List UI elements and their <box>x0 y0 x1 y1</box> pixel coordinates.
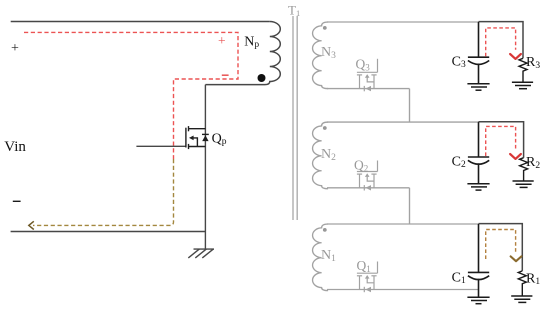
wire: N1 top rail (black to R1) <box>479 224 523 271</box>
wire: N2 output current loop dashed red <box>486 126 516 156</box>
svg-text:C3: C3 <box>452 55 466 71</box>
wire: interconnect N3 to N2 <box>409 89 411 123</box>
wire: N2 top rail (gray) <box>327 121 479 123</box>
wire: N3 loop arrowhead <box>510 54 521 59</box>
ground (R2) <box>513 181 534 187</box>
transformer secondary winding N1 <box>313 224 329 291</box>
wire: interconnect N2 to N1 <box>409 188 411 224</box>
transformer secondary winding N2 <box>313 122 329 189</box>
svg-text:Q2: Q2 <box>354 158 368 174</box>
node: red minus annotation <box>222 74 229 76</box>
resistor R1 <box>518 271 526 296</box>
wire: N1 output current loop dashed brown <box>486 230 516 260</box>
transformer T1 primary winding Np <box>205 22 280 85</box>
capacitor C2 <box>468 122 489 184</box>
svg-text:C2: C2 <box>452 155 466 171</box>
svg-text:+: + <box>11 41 19 56</box>
wire: N1 bottom rail <box>327 289 479 291</box>
ground (R3) <box>512 82 533 88</box>
transformer T1 core <box>293 16 297 220</box>
wire: primary bottom rail <box>11 231 206 233</box>
svg-text:R1: R1 <box>526 271 540 287</box>
svg-text:N3: N3 <box>321 45 336 61</box>
node: primary polarity dot <box>258 74 266 82</box>
wire: drain vertical from Np to ground <box>204 85 206 250</box>
wire: N3 bottom rail <box>327 88 410 90</box>
wire: N3 output current loop dashed red <box>486 28 516 56</box>
wire: N1 top rail (gray) <box>327 223 479 225</box>
svg-text:N2: N2 <box>321 147 336 163</box>
svg-text:Np: Np <box>244 34 259 50</box>
capacitor C1 <box>468 224 489 297</box>
node: N3 polarity dot <box>323 26 327 30</box>
transistor Q2 <box>357 161 378 191</box>
resistor R2 <box>520 158 528 181</box>
transformer secondary winding N3 <box>313 22 329 89</box>
wire: N3 top rail (gray) <box>327 21 479 23</box>
wire: loop arrow (left chevron) <box>29 221 34 229</box>
svg-text:T1: T1 <box>288 3 300 19</box>
ground (R1) <box>511 296 532 302</box>
svg-text:C1: C1 <box>452 271 466 287</box>
wire: N1 loop arrowhead brown <box>511 256 522 261</box>
wire: N2 loop arrowhead <box>510 154 521 159</box>
node: N1 polarity dot <box>323 228 327 232</box>
svg-text:Q1: Q1 <box>357 258 371 274</box>
ground (C3) <box>467 84 489 90</box>
node: minus terminal of Vin <box>13 200 21 202</box>
wire: N2 bottom rail <box>327 187 410 189</box>
resistor R3 <box>519 58 527 82</box>
transistor Q3 <box>357 59 378 92</box>
wire: N3 top rail (black to R3) <box>479 22 524 59</box>
ground (C1) <box>467 297 489 303</box>
capacitor C3 <box>468 22 489 84</box>
wire: N2 top rail (black to R2) <box>479 122 524 158</box>
svg-text:Q3: Q3 <box>356 56 371 72</box>
svg-text:R3: R3 <box>526 55 540 71</box>
svg-text:R2: R2 <box>526 155 540 171</box>
wire: primary top rail <box>11 21 270 23</box>
svg-text:Vin: Vin <box>4 139 26 155</box>
wire: gate lead of Qp <box>136 145 186 147</box>
wire: primary current loop dashed olive-brown (lower) <box>33 159 174 225</box>
ground (C2) <box>467 184 489 190</box>
svg-text:+: + <box>218 33 226 48</box>
svg-text:Qp: Qp <box>212 131 227 147</box>
wire: primary current loop dashed red (top + right + mid) <box>24 32 238 159</box>
transistor Qp <box>186 126 209 149</box>
ground (primary, earth style) <box>188 249 214 258</box>
transistor Q1 <box>357 262 378 293</box>
node: N2 polarity dot <box>323 126 327 130</box>
svg-text:N1: N1 <box>321 248 336 264</box>
